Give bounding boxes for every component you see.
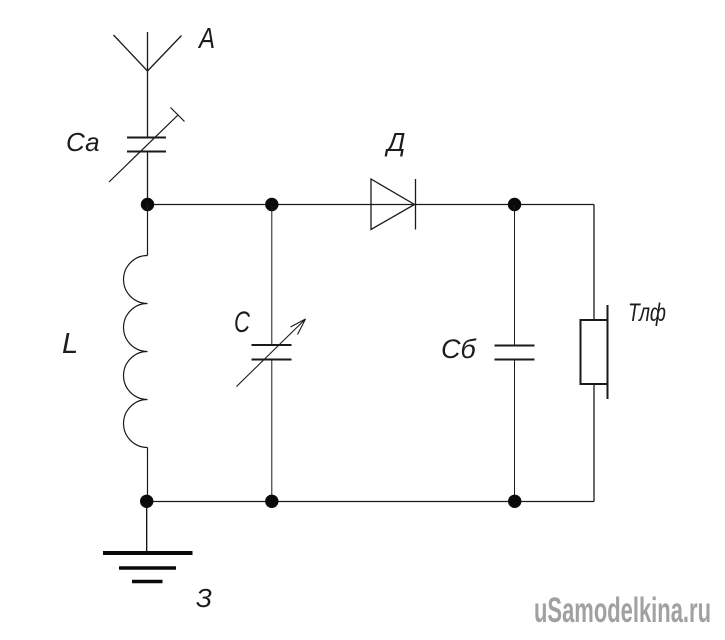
headphones Tlf (581, 305, 608, 399)
svg-text:L: L (62, 328, 78, 360)
inductor L (124, 205, 148, 502)
svg-text:Д: Д (384, 127, 405, 157)
capacitor Ca (109, 108, 185, 183)
svg-text:Сб: Сб (441, 334, 476, 364)
wire Ca to node1 (147, 152, 149, 205)
wire top horizontal (148, 204, 595, 206)
svg-text:uSamodelkina.ru: uSamodelkina.ru (534, 591, 711, 630)
capacitor C (237, 205, 306, 502)
svg-text:A: A (197, 23, 215, 55)
svg-text:С: С (234, 306, 250, 339)
label Z (ground) (196, 583, 212, 613)
label A (197, 23, 215, 55)
svg-text:З: З (196, 583, 212, 613)
node 1 (141, 198, 154, 211)
wire bottom horizontal (148, 501, 595, 503)
antenna A (114, 32, 182, 138)
label C (234, 306, 250, 339)
label D (384, 127, 405, 157)
svg-text:Са: Са (66, 127, 100, 157)
node 5 (265, 495, 278, 508)
label Ca (66, 127, 100, 157)
diode D (371, 179, 416, 230)
svg-text:Тлф: Тлф (628, 299, 666, 327)
node 6 (508, 495, 521, 508)
node 3 (508, 198, 521, 211)
wire right vertical top (593, 205, 595, 321)
watermark uSamodelkina.ru (534, 591, 711, 630)
ground (103, 501, 193, 581)
node 2 (265, 198, 278, 211)
label L (62, 328, 78, 360)
node 4 (140, 495, 153, 508)
capacitor Cb (495, 205, 535, 502)
label Cb (441, 334, 476, 364)
wire right vertical bottom (593, 384, 595, 502)
label Tlf (628, 299, 666, 327)
